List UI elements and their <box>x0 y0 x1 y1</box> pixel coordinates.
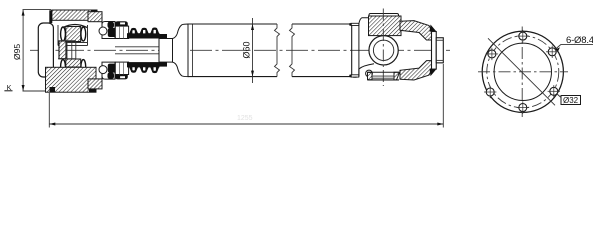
svg-text:Ø60: Ø60 <box>242 41 252 58</box>
svg-text:Ø95: Ø95 <box>12 44 22 60</box>
svg-text:1255: 1255 <box>237 115 253 122</box>
svg-text:Ø32: Ø32 <box>563 96 579 105</box>
